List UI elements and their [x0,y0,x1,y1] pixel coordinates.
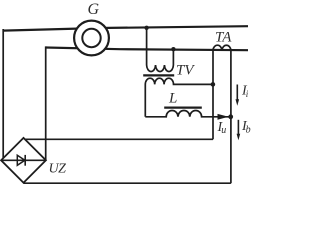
wire TA left secondary vertical [212,50,214,139]
rectifier UZ diamond [1,138,46,183]
node dot TV-secondary to TA-left vertical [211,82,216,87]
current transformer TA arcs [213,45,231,50]
transformer TV secondary winding + wires [145,78,213,117]
transformer TV primary winding [147,28,174,72]
wire left outer vertical [2,29,4,159]
wire second bus line [46,48,248,51]
svg-text:TA: TA [215,30,232,46]
svg-text:u: u [221,125,226,136]
diode inside UZ [1,159,46,161]
current arrow Ii [236,85,238,102]
node dot on top bus [144,26,148,30]
wire bottom horizontal to UZ bottom vertex [24,182,231,184]
reactor L winding + wire to junction [145,111,231,117]
TV core bar [143,74,174,76]
node dot L-wire to TA-right vertical [228,114,233,119]
L core bar [164,106,202,108]
node dot on second bus [171,47,175,51]
svg-text:TV: TV [176,63,195,79]
svg-text:UZ: UZ [49,162,67,177]
svg-text:L: L [168,91,177,107]
svg-text:G: G [88,1,100,18]
wire top bus line [3,26,248,30]
wire UZ right-vertex vertical [45,46,47,160]
current arrow Iv [237,120,239,136]
svg-text:b: b [246,125,251,136]
wire TA right secondary vertical [230,50,232,183]
generator G (double circle) [74,21,109,56]
wire horizontal to UZ top vertex [24,138,214,140]
current arrow Iu on wire [218,114,229,120]
svg-text:i: i [246,89,249,99]
